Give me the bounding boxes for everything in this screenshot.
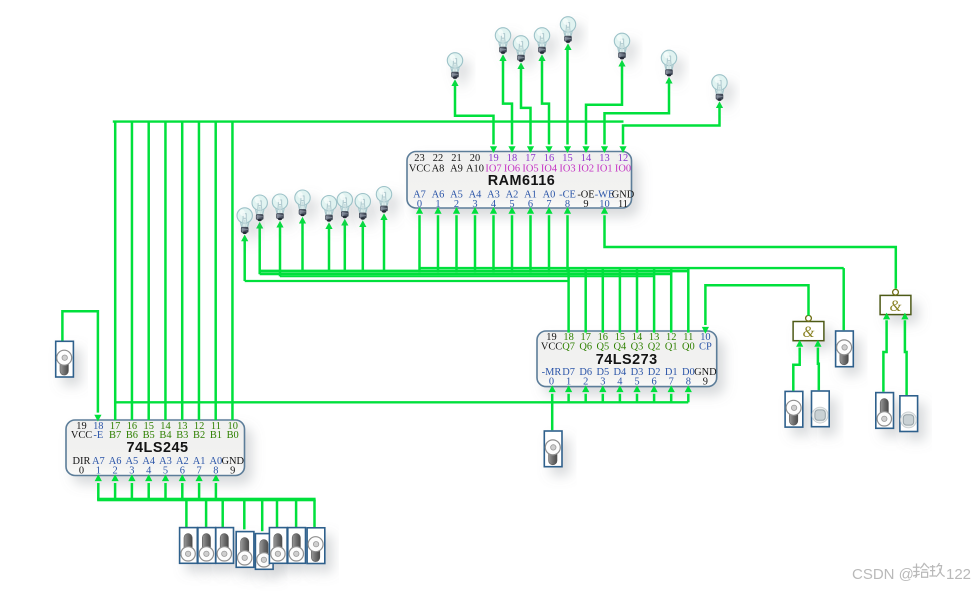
U1 top pin numbers 23..12	[414, 153, 628, 164]
svg-text:B7: B7	[109, 430, 121, 441]
switch S8 (data input bit 0)	[307, 528, 325, 564]
wire switch to NAND G1 input B	[814, 340, 821, 390]
wire bulb DS16 drop to band	[380, 213, 387, 271]
bulb DS10 (address display)	[252, 195, 267, 221]
switch S13 (G1 input B, push button)	[812, 391, 830, 427]
bulb DS15 (address display)	[355, 194, 370, 220]
wire bulb DS14 drop to band	[341, 219, 348, 272]
svg-text:74LS273: 74LS273	[596, 352, 658, 368]
svg-text:9: 9	[703, 377, 708, 388]
switch S15 (G2 input B, push button)	[900, 396, 918, 432]
wire switch to NAND G2 input B	[901, 313, 908, 395]
svg-text:CSDN @: CSDN @	[852, 566, 914, 583]
U2 bottom pin labels -MR..GND	[542, 367, 717, 378]
switch S7 (data input bit 1)	[288, 528, 306, 564]
wire switch to 74LS273 -MR (pin 1)	[549, 385, 556, 430]
svg-text:CP: CP	[699, 342, 712, 353]
U1 bottom pin numbers 0..11	[417, 199, 628, 210]
svg-text:&: &	[803, 324, 815, 341]
wire bulb DS15 drop to band	[359, 220, 366, 271]
wire bulb DS7 to RAM6116 IO1 (pin 13)	[601, 77, 673, 153]
switch S2 (data input bit 6)	[198, 528, 216, 564]
wire bulb DS6 to RAM6116 IO2 (pin 14)	[582, 60, 625, 153]
wire bulb DS1 to RAM6116 IO7 (pin 19)	[451, 79, 497, 153]
bulb DS14 (address display)	[337, 192, 352, 218]
U2 bottom pin numbers 0..9	[549, 377, 708, 388]
switch S14 (G2 input A)	[876, 393, 894, 429]
wire switch to 74LS245 -E (pin 18)	[62, 311, 101, 421]
wire data line to 74LS273 D7..D0	[115, 385, 692, 402]
bulb DS8 (IO0)	[712, 75, 727, 101]
svg-text:4: 4	[146, 465, 152, 476]
wire band line 2	[260, 273, 672, 276]
switch S10 (-MR master reset)	[544, 431, 562, 467]
svg-text:&: &	[890, 298, 902, 315]
wire RAM6116 A7..A0,-CE pin drops to band	[416, 207, 571, 272]
wire bulb DS13 drop to band	[325, 222, 332, 271]
U1 bottom pin labels A7..GND	[413, 190, 635, 201]
wire bulb DS2 to RAM6116 IO6 (pin 18)	[499, 54, 515, 153]
svg-text:A9: A9	[450, 163, 463, 174]
svg-text:11: 11	[618, 199, 628, 210]
svg-text:B1: B1	[210, 430, 222, 441]
svg-text:Q0: Q0	[682, 342, 695, 353]
U3 top pin numbers 19..10	[76, 421, 238, 432]
switch S6 (data input bit 2)	[269, 528, 287, 564]
svg-text:A8: A8	[432, 163, 445, 174]
switch S5 (data input bit 3)	[255, 534, 273, 570]
U2 title 74LS273	[596, 352, 658, 368]
U3 title 74LS245	[127, 440, 189, 456]
svg-text:9: 9	[230, 465, 235, 476]
U3 bottom pin numbers 0..9	[79, 465, 235, 476]
bulb DS5 (IO3)	[560, 17, 575, 43]
wire bulb DS5 to RAM6116 IO3 (pin 15)	[564, 43, 572, 153]
U2 top pin labels VCC..CP	[541, 342, 712, 353]
svg-text:Q6: Q6	[579, 342, 592, 353]
bulb DS11 (address display)	[272, 194, 287, 220]
register chip U2 74LS273	[537, 331, 717, 387]
svg-text:9: 9	[583, 199, 588, 210]
watermark CSDN	[852, 563, 971, 583]
svg-text:B0: B0	[227, 430, 239, 441]
svg-text:IO3: IO3	[559, 163, 575, 174]
wire bulb DS12 drop to band	[299, 217, 306, 272]
transceiver chip U3 74LS245	[66, 420, 245, 476]
bulb DS4 (IO4)	[534, 28, 549, 54]
svg-text:IO2: IO2	[578, 163, 594, 174]
svg-text:B2: B2	[193, 430, 205, 441]
wire bulb DS10 drop to band	[256, 222, 263, 275]
svg-text:RAM6116: RAM6116	[488, 173, 556, 189]
svg-text:VCC: VCC	[71, 430, 92, 441]
wire bulb DS11 drop to band	[276, 221, 283, 277]
bulb DS13 (address display)	[321, 196, 336, 222]
svg-text:0: 0	[549, 377, 554, 388]
wire 74LS273 Q7..Q0 risers to band	[569, 267, 689, 333]
bulb DS6 (IO2)	[614, 33, 629, 59]
svg-text:0: 0	[79, 465, 84, 476]
nand gate G1	[793, 315, 824, 341]
wire 74LS245 A7..A0 pin drops	[95, 474, 220, 500]
svg-text:IO1: IO1	[596, 163, 612, 174]
U2 top pin numbers 19..10	[546, 332, 710, 343]
U3 bottom pin labels DIR..GND	[73, 456, 245, 467]
switch S12 (G1 input A)	[785, 391, 803, 427]
svg-text:-E: -E	[93, 430, 103, 441]
switch S4 (data input bit 4)	[236, 532, 254, 568]
svg-text:VCC: VCC	[409, 163, 430, 174]
svg-text:Q7: Q7	[562, 342, 575, 353]
svg-text:Q1: Q1	[665, 342, 678, 353]
wire switch bus band	[97, 498, 315, 502]
nand gate G2	[880, 289, 911, 315]
U1 title RAM6116	[488, 173, 556, 189]
wire NAND G2 output to RAM6116 -WE (pin 10)	[601, 207, 896, 289]
wire band line 3	[280, 275, 654, 277]
wire top bus rail (B7..B0 to RAM IO)	[113, 120, 624, 122]
svg-text:VCC: VCC	[541, 342, 562, 353]
svg-text:74LS245: 74LS245	[127, 440, 189, 456]
switch S9 (-E enable)	[56, 341, 74, 377]
svg-text:4: 4	[617, 377, 623, 388]
wire switch to NAND G1 input A	[793, 340, 803, 391]
wire band main line	[260, 270, 689, 273]
svg-text:122: 122	[946, 566, 971, 583]
wire band low line to Q7	[245, 280, 569, 282]
svg-text:Q5: Q5	[596, 342, 609, 353]
wire bus verticals B7..B0	[115, 121, 232, 420]
wire bulb DS8 to RAM6116 IO0 (pin 12)	[619, 101, 723, 153]
U3 top pin labels VCC..B0	[71, 430, 239, 441]
wire switch to NAND G2 input A	[883, 313, 890, 392]
bulb DS12 (address display)	[295, 190, 310, 216]
wire bulb DS4 to RAM6116 IO4 (pin 16)	[538, 54, 552, 153]
wire band line L1 (-CE net to switch)	[420, 268, 844, 330]
bulb DS7 (IO1)	[661, 50, 676, 76]
wire bulb DS3 to RAM6116 IO5 (pin 17)	[517, 62, 534, 153]
switch S1 (data input bit 7)	[180, 528, 198, 564]
wire switch drop verticals	[186, 500, 314, 532]
wire NAND G1 output to 74LS273 CP (pin 10)	[702, 285, 809, 333]
bulb DS2 (IO6)	[495, 28, 510, 54]
svg-text:Q3: Q3	[631, 342, 644, 353]
svg-text:A10: A10	[466, 163, 484, 174]
svg-text:Q2: Q2	[648, 342, 661, 353]
switch S3 (data input bit 5)	[216, 528, 234, 564]
bulb DS16 (address display)	[376, 187, 391, 213]
bulb DS3 (IO5)	[513, 36, 528, 62]
switch S11 (-CE chip enable)	[836, 331, 854, 367]
U1 top pin labels VCC..IO0	[409, 163, 631, 174]
bulb DS1 (IO7)	[447, 53, 462, 79]
RAM chip U1 RAM6116	[407, 152, 632, 209]
bulb DS9 (address display)	[237, 208, 252, 234]
svg-text:Q4: Q4	[614, 342, 628, 353]
wire bulb DS9 drop to band	[241, 235, 248, 282]
svg-text:IO0: IO0	[615, 163, 631, 174]
